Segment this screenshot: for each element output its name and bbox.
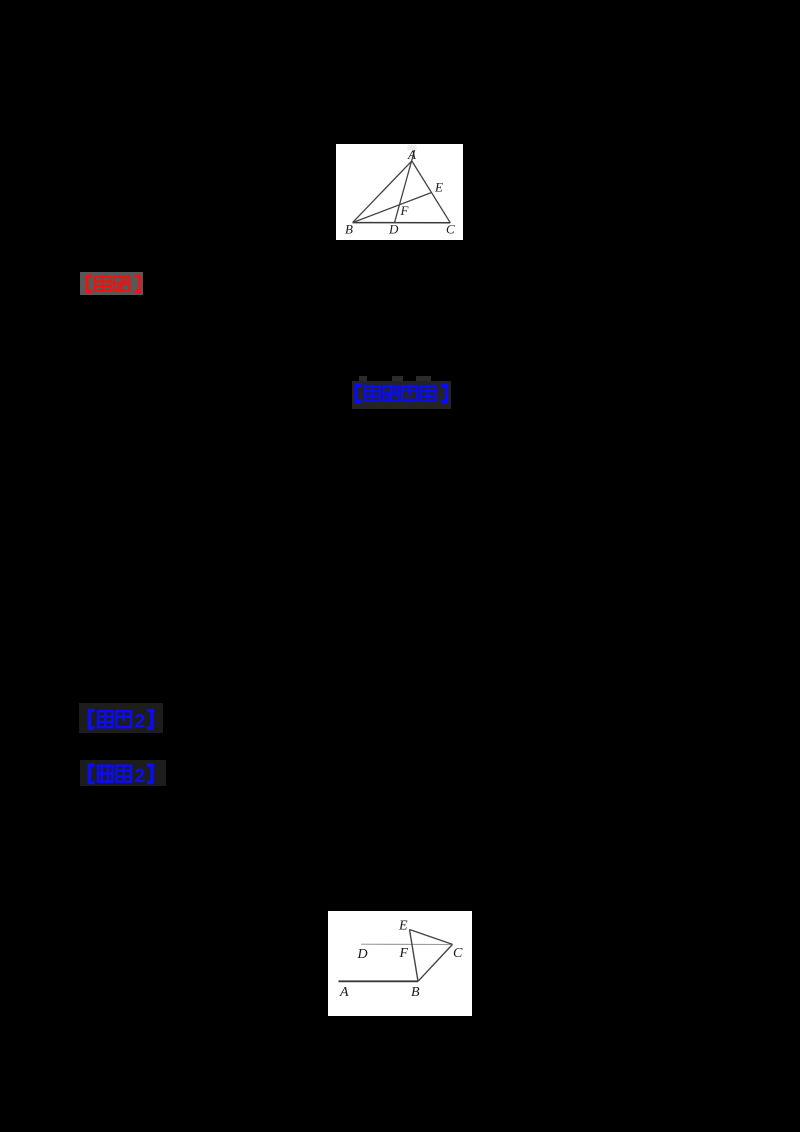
wire: side AB (353, 161, 412, 223)
faint smudge above A (408, 145, 417, 150)
wire: base line A to B (338, 980, 418, 982)
svg-text:F: F (398, 946, 408, 961)
wire: E to B (409, 930, 418, 982)
svg-text:D: D (388, 221, 399, 236)
svg-text:D: D (356, 947, 367, 962)
svg-text:E: E (398, 919, 408, 934)
svg-text:2: 2 (135, 711, 146, 731)
svg-text:C: C (446, 221, 455, 236)
wire: C to B (418, 944, 453, 981)
svg-text:B: B (345, 221, 353, 236)
svg-text:F: F (400, 203, 410, 218)
svg-text:B: B (411, 985, 420, 1000)
blue heading [zhi shi dian bo] with dark halo (352, 381, 451, 409)
svg-text:2: 2 (134, 766, 145, 785)
wire: thin parallel line D to C (361, 943, 453, 945)
wire: cevian D through A extended above (394, 150, 414, 223)
svg-text:E: E (434, 179, 443, 194)
blue label [kao dian 2] with faint dark backing (79, 703, 163, 733)
svg-text:A: A (339, 985, 349, 1000)
figure box 1: triangle ABC with cevians AD and BE meeting at F (336, 144, 463, 241)
figure box 2: line AB, triangle EBC, parallel line D-F-C (328, 911, 473, 1016)
svg-text:A: A (407, 147, 416, 162)
wire: side BC (353, 221, 451, 223)
red label [jie xi] on gray highlight (80, 272, 143, 295)
wire: E to C (409, 930, 452, 945)
svg-text:C: C (453, 946, 463, 961)
wire: side AC (412, 161, 451, 223)
blue label [li ti 2] with faint dark backing (80, 760, 166, 787)
wire: cevian B to E (353, 192, 432, 222)
